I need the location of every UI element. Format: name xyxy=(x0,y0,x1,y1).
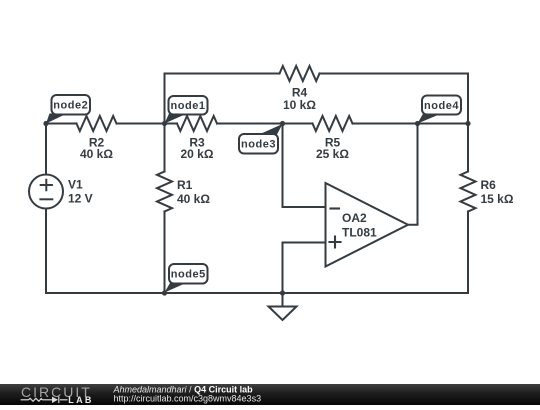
wire op-amp output to node4 xyxy=(408,124,418,225)
CircuitLab logo wordmark xyxy=(21,384,94,405)
node5 flag xyxy=(165,264,208,293)
footer bar xyxy=(0,384,540,405)
voltage source V1 xyxy=(29,175,63,209)
resistor R6 xyxy=(461,172,476,212)
node3 flag xyxy=(239,124,283,154)
resistor R3 xyxy=(177,116,217,131)
resistor R4 xyxy=(280,66,320,81)
svg-text:20 kΩ: 20 kΩ xyxy=(181,147,214,161)
svg-text:http://circuitlab.com/c3g8wmv8: http://circuitlab.com/c3g8wmv84e3s3 xyxy=(114,394,262,404)
svg-text:12 V: 12 V xyxy=(68,191,93,205)
node E junction right rail xyxy=(465,121,470,126)
op-amp U1 triangle xyxy=(326,183,409,267)
svg-text:25 kΩ: 25 kΩ xyxy=(316,147,349,161)
svg-text:10 kΩ: 10 kΩ xyxy=(283,98,316,112)
svg-text:node5: node5 xyxy=(171,269,206,281)
svg-text:40 kΩ: 40 kΩ xyxy=(177,192,210,206)
logo schematic glyph xyxy=(21,397,68,403)
resistor R1 xyxy=(157,172,172,212)
node G junction ground xyxy=(280,290,285,295)
svg-text:V1: V1 xyxy=(68,178,83,192)
svg-text:R6: R6 xyxy=(481,178,497,192)
wire node3 to op-amp inverting input xyxy=(283,124,326,208)
svg-text:node3: node3 xyxy=(241,139,276,151)
wire main horizontal rail y=123.5 node2 to right rail xyxy=(46,123,468,125)
V1 plus sign xyxy=(41,180,52,191)
wire R1 branch vertical xyxy=(164,124,166,294)
ground stem xyxy=(282,293,284,307)
svg-text:LAB: LAB xyxy=(68,395,93,405)
footer credit text xyxy=(113,384,262,403)
node B junction node1 xyxy=(162,121,167,126)
wire top rail y=73.5 xyxy=(165,73,469,75)
wire right rail vertical xyxy=(467,74,469,294)
wire ground branch to op-amp non-inverting input xyxy=(283,243,326,294)
wire left rail V1 leads xyxy=(45,124,47,294)
svg-text:node2: node2 xyxy=(53,100,88,112)
resistor R5 xyxy=(313,116,353,131)
op-amp minus input marker xyxy=(331,207,340,209)
node F junction node5 xyxy=(162,290,167,295)
wire node1 vertical up xyxy=(164,74,166,124)
V1 minus sign xyxy=(40,198,52,200)
svg-text:node4: node4 xyxy=(424,100,459,112)
node2 flag xyxy=(46,95,90,124)
svg-text:node1: node1 xyxy=(171,100,206,112)
node4 flag xyxy=(418,96,462,124)
svg-text:15 kΩ: 15 kΩ xyxy=(481,192,514,206)
node1 flag xyxy=(165,96,208,124)
svg-text:TL081: TL081 xyxy=(342,226,377,240)
op-amp plus input marker xyxy=(330,237,341,248)
node C junction node3 xyxy=(280,121,285,126)
wire bottom rail y=293 xyxy=(46,292,468,294)
node A junction node2 xyxy=(43,121,48,126)
resistor R2 xyxy=(77,116,117,131)
node name flags xyxy=(46,95,461,293)
svg-text:OA2: OA2 xyxy=(342,211,367,225)
svg-text:40 kΩ: 40 kΩ xyxy=(80,147,113,161)
component value labels xyxy=(68,86,514,240)
ground symbol triangle xyxy=(269,307,297,321)
node D junction node4 xyxy=(415,121,420,126)
svg-text:R1: R1 xyxy=(177,178,193,192)
